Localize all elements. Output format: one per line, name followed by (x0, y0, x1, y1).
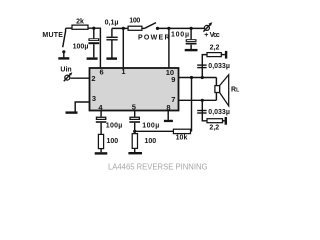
switch MUTE contact dot (62, 50, 65, 53)
resistor R 2k box (72, 25, 88, 29)
wire: mute node from switch through 2k to pin6 elbow (66, 28, 101, 68)
ground (pin 3) (66, 111, 78, 113)
wire: pin10 vertical (168, 28, 170, 68)
svg-text:100: 100 (145, 138, 157, 145)
resistor 100 (pin5) box (132, 134, 137, 149)
capacitor 100u (vcc) electrolytic (186, 39, 197, 44)
IC U1 LA4465 body (90, 68, 179, 111)
wire: pin 5 stub (134, 111, 136, 117)
svg-text:Uin: Uin (60, 67, 71, 74)
svg-text:RL: RL (231, 86, 240, 93)
wire: pin1 vertical (122, 28, 124, 68)
resistor 100 (top) box (128, 26, 142, 30)
wire: feedback 10k horizontal (135, 130, 192, 132)
ground (pin4) (95, 152, 108, 154)
svg-text:0,033µ: 0,033µ (208, 109, 230, 116)
speaker RL (215, 75, 229, 106)
svg-text:LA4465 REVERSE PINNING: LA4465 REVERSE PINNING (108, 162, 208, 172)
svg-text:MUTE: MUTE (42, 32, 63, 39)
wire: 0,1u to ground (111, 41, 113, 58)
svg-text:1: 1 (121, 67, 125, 76)
plate bar (lower 2,2 end) (225, 117, 227, 125)
switch POWER blade (145, 23, 156, 29)
svg-text:7: 7 (171, 95, 175, 104)
wire: pin 7 output to speaker (179, 99, 217, 101)
ground (0,1u) (106, 57, 117, 59)
wire: upper 2,2 right lead (221, 54, 225, 56)
node dot: feedback takeoff pin5 (133, 130, 136, 133)
svg-text:2: 2 (91, 74, 95, 83)
svg-text:10k: 10k (176, 134, 188, 141)
resistor 2,2 (upper) box (207, 53, 221, 57)
svg-text:100µ: 100µ (106, 122, 123, 129)
svg-text:100µ: 100µ (142, 122, 159, 129)
svg-text:5: 5 (132, 102, 136, 111)
ground (mute switch) (58, 57, 69, 59)
node dot: pin1 junction (122, 27, 125, 30)
svg-text:100: 100 (129, 17, 140, 24)
switch MUTE blade (63, 28, 66, 47)
wire: pin5 cap down through feedback node (134, 123, 136, 134)
wire: pin 9 output to speaker (179, 77, 217, 79)
ground (mute cap) (87, 57, 98, 59)
svg-text:100: 100 (107, 138, 119, 145)
terminal Uin circle with arrow (64, 72, 73, 81)
capacitor 100u (mute) electrolytic (88, 38, 99, 44)
ground (pin 8) (164, 120, 173, 122)
wire: 100u vcc cap stub (190, 28, 192, 39)
node dot: 100u vcc cap junction (190, 27, 193, 30)
wire: lower zobel vertical (202, 100, 207, 121)
svg-text:2,2: 2,2 (210, 44, 220, 51)
wire: pin4 cap to resistor (100, 123, 102, 135)
wire: feedback vertical (10k to pin9) (191, 78, 193, 132)
wire: 100u vcc to ground (190, 45, 192, 49)
ground (pin5) (128, 152, 142, 154)
capacitor 0,033u (lower) plates (197, 110, 206, 114)
svg-text:0,1µ: 0,1µ (105, 20, 119, 27)
switch POWER contact dot (156, 27, 159, 30)
resistor 2,2 (lower) box (207, 119, 223, 123)
wire: top supply node from 0,1u to Vcc (112, 27, 145, 29)
wire: pin5 resistor to ground (134, 148, 136, 152)
wire: mute cap branch (93, 28, 95, 38)
node dot: zobel junction on pin7 wire (201, 99, 204, 102)
ground (100u vcc) (185, 49, 198, 51)
svg-text:3: 3 (92, 94, 96, 103)
resistor 100 (pin4) box (98, 134, 103, 148)
wire: lower 2,2 right lead (223, 120, 225, 122)
wire: mute switch to ground (63, 53, 65, 58)
svg-text:2k: 2k (76, 18, 84, 25)
svg-text:2,2: 2,2 (209, 124, 219, 131)
node dot: feedback junction on pin9 wire (190, 76, 193, 79)
capacitor 100u (pin5) electrolytic (129, 117, 140, 123)
terminal +Vcc circle with arrow (203, 22, 212, 31)
node dot: junction 2k / 100u mute cap (92, 27, 95, 30)
resistor 10k box (173, 129, 190, 133)
svg-text:100µ: 100µ (171, 31, 189, 38)
node dot: zobel junction on pin9 wire (201, 76, 204, 79)
wire: 0,1u cap stub (111, 28, 113, 36)
svg-text:+: + (204, 32, 208, 39)
wire: mute cap to ground (93, 44, 95, 57)
wire: pin 8 stub (167, 111, 169, 120)
svg-text:6: 6 (100, 68, 104, 77)
svg-text:0,033µ: 0,033µ (208, 63, 230, 70)
wire: pin 3 to ground elbow (75, 102, 89, 112)
wire: pin 4 stub (100, 111, 102, 117)
svg-text:9: 9 (171, 75, 175, 84)
capacitor 0,1u plates (106, 37, 117, 41)
capacitor 100u (pin4) electrolytic (96, 117, 107, 123)
plate bar (upper 2,2 end) (225, 51, 227, 59)
svg-text:100µ: 100µ (73, 44, 89, 51)
wire: upper zobel vertical and elbow (202, 55, 207, 78)
wire: Uin to pin 2 (71, 77, 90, 79)
wire: speaker terminal vertical (215, 78, 217, 101)
svg-text:Vcc: Vcc (210, 32, 220, 39)
wire: after power switch to Vcc terminal (158, 27, 205, 29)
wire: pin4 resistor to ground (100, 149, 102, 153)
node dot: pin10 junction (167, 27, 170, 30)
capacitor 0,033u (upper) plates (197, 64, 206, 68)
